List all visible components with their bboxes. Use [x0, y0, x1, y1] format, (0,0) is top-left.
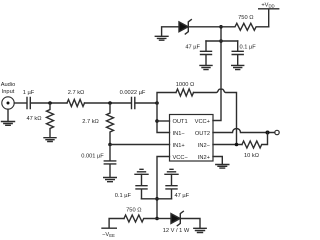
svg-text:0.1 µF: 0.1 µF — [240, 45, 257, 51]
terminal output — [275, 130, 279, 134]
ground (inverted) — [135, 169, 148, 174]
resistor 10 kΩ — [242, 133, 268, 149]
capacitor 0.001 µF — [104, 145, 115, 178]
resistor 47 kΩ — [47, 103, 54, 138]
ground — [216, 165, 229, 169]
op-amp U1 dual amplifier — [170, 115, 214, 162]
svg-text:OUT1: OUT1 — [173, 119, 188, 125]
capacitor 0.0022 µF — [132, 98, 135, 109]
capacitor 47 µF (upper) — [201, 41, 212, 65]
node E — [155, 119, 159, 123]
node J — [219, 39, 223, 43]
ground — [194, 228, 206, 232]
wire jack to ground — [7, 109, 9, 121]
resistor 1000 Ω — [176, 89, 194, 96]
wire cap to node D — [135, 102, 157, 104]
wire C1 to node A — [31, 102, 68, 104]
wire node D up to feedback — [157, 93, 176, 104]
wire VCC- down — [157, 157, 170, 219]
svg-text:Audio: Audio — [1, 82, 16, 88]
svg-text:47 µF: 47 µF — [185, 45, 200, 51]
svg-text:IN2+: IN2+ — [198, 155, 211, 161]
svg-text:0.0022 µF: 0.0022 µF — [120, 90, 146, 96]
wire OUT1 — [157, 120, 170, 122]
svg-text:47 µF: 47 µF — [175, 193, 190, 199]
wire bypass caps row — [142, 198, 172, 200]
ground — [155, 36, 168, 40]
capacitor C1 1 µF — [27, 98, 30, 109]
node G — [155, 217, 159, 221]
wire IN1+ — [110, 144, 170, 146]
wire to node B — [85, 102, 132, 104]
svg-text:+VDD: +VDD — [261, 3, 274, 9]
wire jack to C1 — [14, 102, 27, 104]
resistor 2.7 kΩ horizontal — [67, 100, 85, 107]
node H — [266, 131, 270, 135]
capacitor 47 µF (lower) — [166, 175, 177, 199]
ground — [2, 122, 15, 126]
power rail +VDD — [259, 9, 279, 27]
svg-text:47 kΩ: 47 kΩ — [26, 116, 41, 122]
svg-text:10 kΩ: 10 kΩ — [244, 153, 259, 159]
svg-text:Input: Input — [2, 89, 15, 95]
resistor 2.7 kΩ vertical — [107, 103, 114, 145]
node A — [48, 101, 52, 105]
svg-text:750 Ω: 750 Ω — [238, 15, 253, 21]
svg-text:750 Ω: 750 Ω — [126, 208, 141, 214]
svg-text:IN1−: IN1− — [173, 131, 186, 137]
ground — [104, 178, 117, 182]
wire OUT2 with hop — [213, 129, 275, 133]
node K — [219, 25, 223, 29]
wire with hop over VCC+ line — [194, 89, 237, 144]
node D — [155, 101, 159, 105]
zener diode 12 V / 1 W — [157, 218, 171, 220]
svg-text:1 µF: 1 µF — [23, 90, 35, 96]
wire IN2+ to ground — [213, 157, 222, 165]
node I — [235, 143, 239, 147]
ground — [44, 138, 56, 142]
node B — [108, 101, 112, 105]
wire IN2- — [213, 144, 242, 146]
wire VCC+ — [213, 41, 221, 121]
svg-text:2.7 kΩ: 2.7 kΩ — [68, 90, 85, 96]
resistor 750 Ω (upper) — [221, 23, 269, 30]
node F — [155, 197, 159, 201]
svg-text:VCC−: VCC− — [173, 155, 189, 161]
capacitor 0.1 µF (upper) — [232, 41, 243, 65]
wire ground to zener — [162, 27, 179, 36]
svg-text:12 V / 1 W: 12 V / 1 W — [163, 228, 190, 234]
ground — [232, 65, 244, 69]
svg-text:VCC+: VCC+ — [195, 119, 211, 125]
node C — [108, 143, 112, 147]
svg-text:0.1 µF: 0.1 µF — [115, 193, 132, 199]
ground (inverted) — [165, 169, 178, 174]
wire node D down to OUT1/IN1- — [157, 103, 170, 133]
svg-text:1000 Ω: 1000 Ω — [176, 82, 194, 88]
power rail -VEE — [102, 219, 124, 229]
zener diode upper — [179, 22, 188, 32]
svg-text:2.7 kΩ: 2.7 kΩ — [82, 119, 99, 125]
ground — [200, 65, 212, 69]
svg-text:OUT2: OUT2 — [195, 131, 210, 137]
svg-text:IN1+: IN1+ — [173, 143, 186, 149]
resistor 750 Ω (lower) — [124, 215, 157, 222]
wire top caps row — [206, 40, 238, 42]
svg-text:IN2−: IN2− — [198, 143, 211, 149]
connector J1 audio input — [2, 97, 14, 109]
svg-text:0.001 µF: 0.001 µF — [81, 154, 104, 160]
capacitor 0.1 µF (lower) — [136, 175, 147, 199]
wire top node — [220, 27, 222, 41]
svg-text:−VEE: −VEE — [102, 232, 115, 238]
